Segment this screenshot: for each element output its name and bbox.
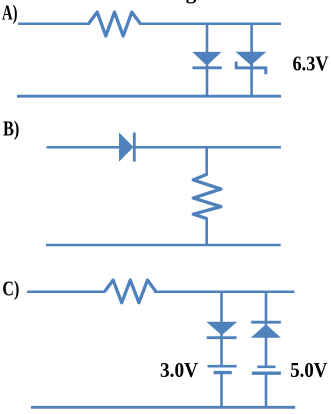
wire C bottom (31, 406, 295, 409)
wire A top-right segment (139, 23, 281, 26)
svg-text:6.3V: 6.3V (293, 52, 329, 76)
wire A bottom (17, 95, 281, 98)
wire B top-left segment (47, 146, 121, 149)
wire C top-left segment (27, 290, 105, 293)
battery B1 plate top (208, 365, 237, 368)
svg-text:B): B) (3, 117, 19, 141)
wire C right branch vertical upper (265, 292, 268, 367)
wire B top-right segment (134, 146, 281, 149)
svg-text:5.0V: 5.0V (290, 358, 327, 382)
wire C left branch vertical lower (220, 373, 223, 407)
resistor R3 (105, 280, 157, 303)
diode D3 (119, 133, 134, 162)
wire B branch vertical upper (205, 147, 208, 175)
resistor R2 (193, 174, 221, 218)
wire C right branch vertical lower (265, 373, 268, 407)
wire A right branch vertical (250, 24, 253, 96)
svg-text:A): A) (2, 1, 18, 25)
diode D4 (206, 322, 237, 336)
zener diode D2 (236, 52, 267, 66)
battery B1 plate bottom (214, 371, 232, 374)
svg-text:g: g (186, 0, 197, 4)
diode D1 (192, 52, 221, 66)
wire A top-left segment (18, 23, 90, 26)
wire B bottom (46, 244, 281, 247)
wire C left branch vertical upper (220, 292, 223, 366)
diode D5 (251, 324, 281, 338)
battery B2 plate bottom (252, 372, 281, 375)
svg-text:3.0V: 3.0V (160, 358, 198, 382)
wire B branch vertical lower (205, 218, 208, 246)
battery B2 plate top (257, 365, 275, 368)
svg-text:C): C) (2, 277, 19, 301)
resistor R1 (89, 12, 141, 36)
wire A left branch vertical (206, 24, 209, 96)
wire C top-right segment (154, 290, 294, 293)
